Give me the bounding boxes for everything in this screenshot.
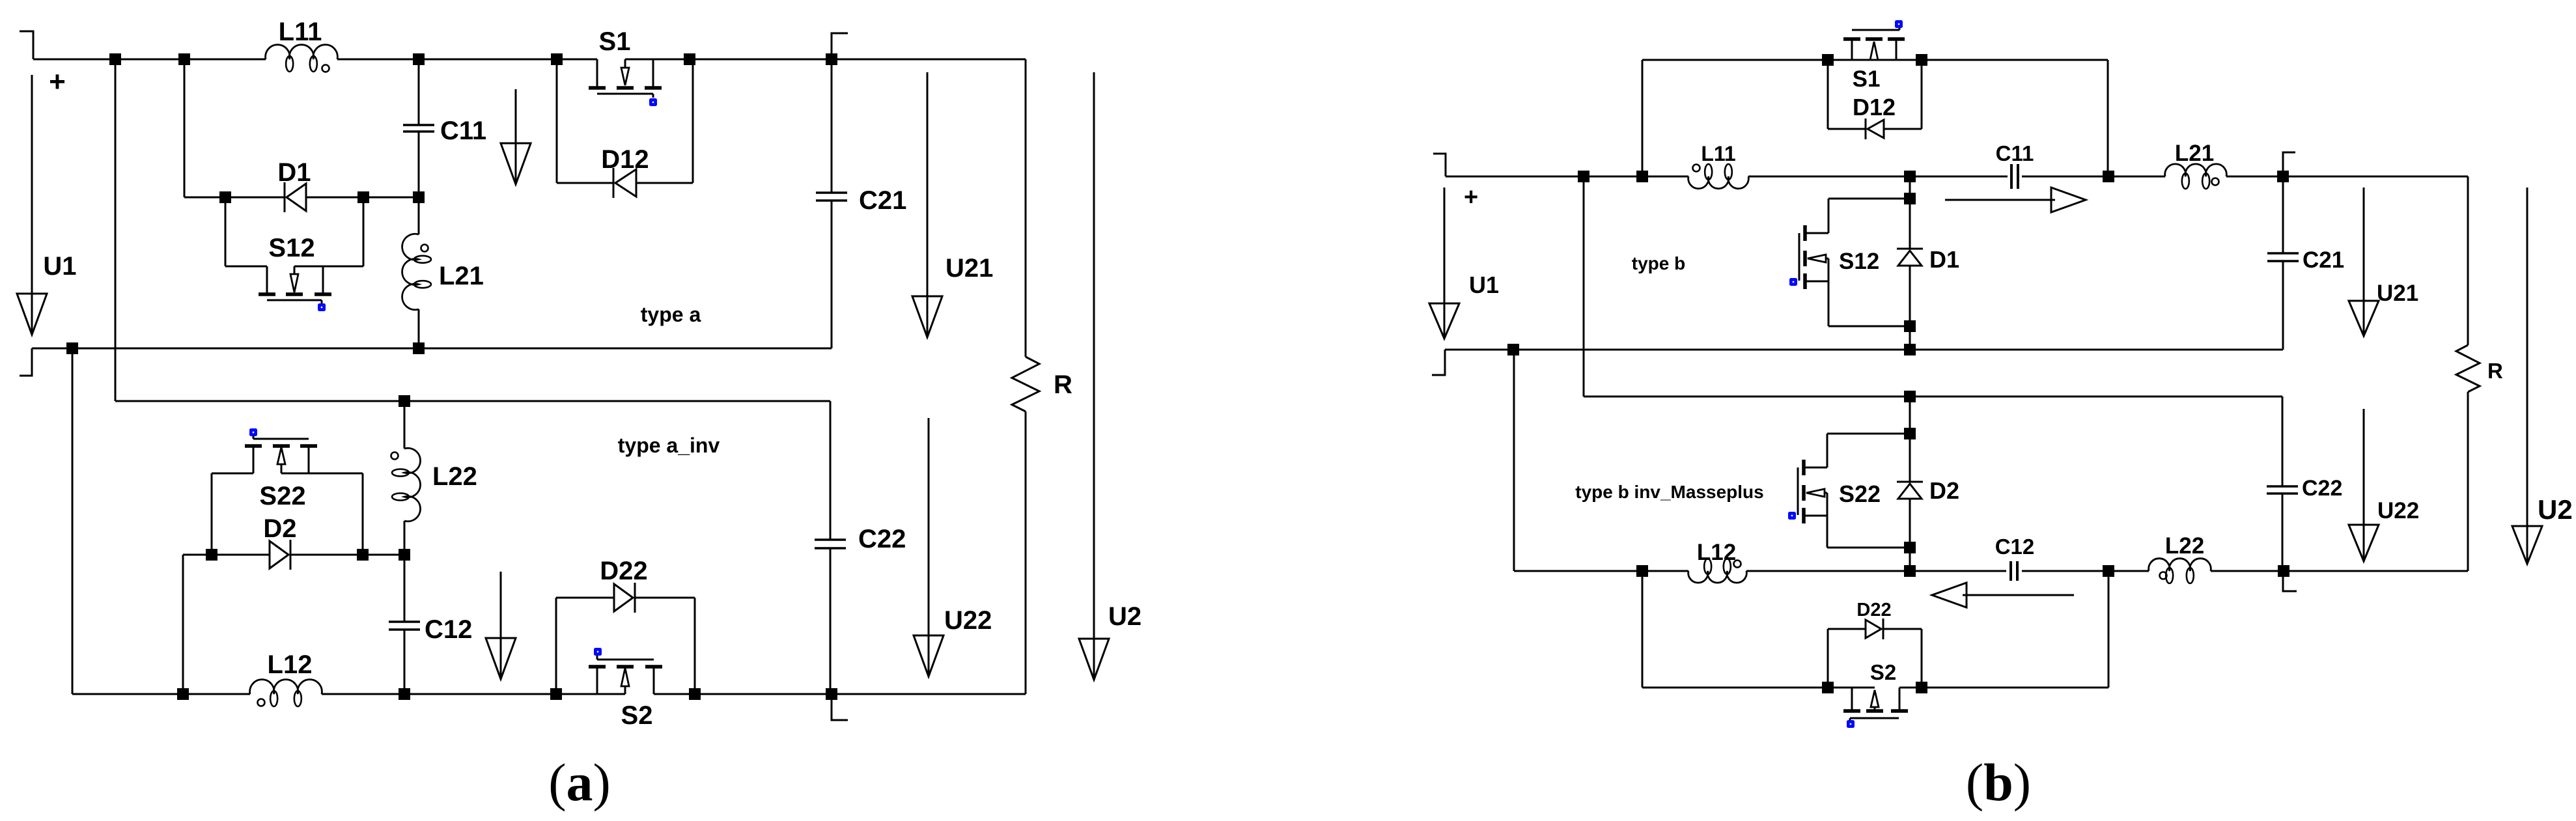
svg-text:C12: C12 (1995, 535, 2035, 559)
svg-text:S22: S22 (1839, 480, 1881, 507)
svg-text:D2: D2 (263, 514, 296, 543)
svg-text:U2: U2 (1108, 602, 1141, 631)
svg-text:type b inv_Masseplus: type b inv_Masseplus (1575, 482, 1763, 502)
svg-text:R: R (2487, 359, 2503, 383)
svg-text:C11: C11 (440, 117, 486, 145)
svg-text:D22: D22 (1856, 600, 1891, 620)
svg-text:+: + (49, 66, 66, 98)
svg-text:C11: C11 (1996, 141, 2034, 165)
svg-text:S1: S1 (1853, 66, 1881, 92)
svg-text:type a_inv: type a_inv (618, 434, 720, 457)
svg-text:S1: S1 (599, 27, 631, 56)
svg-text:U21: U21 (2377, 281, 2418, 306)
svg-text:L21: L21 (439, 262, 484, 290)
svg-text:L11: L11 (1701, 142, 1735, 165)
svg-text:S12: S12 (1839, 249, 1879, 274)
svg-text:U22: U22 (2377, 498, 2419, 523)
svg-text:C21: C21 (859, 186, 906, 215)
svg-text:D1: D1 (277, 158, 311, 187)
svg-text:S2: S2 (621, 701, 653, 730)
svg-text:L22: L22 (2165, 533, 2204, 559)
svg-text:L12: L12 (1697, 540, 1736, 565)
svg-text:U22: U22 (944, 606, 992, 635)
svg-text:R: R (1054, 370, 1072, 399)
svg-text:S2: S2 (1870, 660, 1896, 684)
svg-text:C21: C21 (2303, 247, 2344, 273)
svg-text:D22: D22 (600, 557, 647, 585)
svg-text:U1: U1 (1469, 271, 1499, 298)
svg-text:U21: U21 (945, 254, 993, 283)
svg-text:L12: L12 (268, 650, 313, 679)
svg-text:type b: type b (1632, 253, 1685, 273)
svg-text:C22: C22 (2302, 476, 2342, 501)
svg-text:C22: C22 (858, 525, 906, 553)
svg-text:+: + (1464, 184, 1478, 211)
svg-text:D12: D12 (601, 145, 649, 174)
svg-text:U2: U2 (2538, 494, 2573, 525)
svg-text:L22: L22 (432, 462, 477, 491)
svg-text:D1: D1 (1929, 246, 1959, 273)
svg-text:U1: U1 (43, 252, 76, 281)
svg-text:(b): (b) (1966, 753, 2031, 812)
svg-text:type a: type a (641, 303, 701, 326)
svg-text:(a): (a) (548, 753, 611, 812)
svg-text:D2: D2 (1929, 477, 1959, 504)
svg-text:L11: L11 (279, 18, 322, 46)
svg-text:C12: C12 (425, 615, 472, 644)
svg-text:D12: D12 (1853, 94, 1896, 120)
svg-text:S22: S22 (259, 482, 305, 510)
svg-text:S12: S12 (268, 234, 315, 262)
svg-text:L21: L21 (2175, 141, 2214, 166)
